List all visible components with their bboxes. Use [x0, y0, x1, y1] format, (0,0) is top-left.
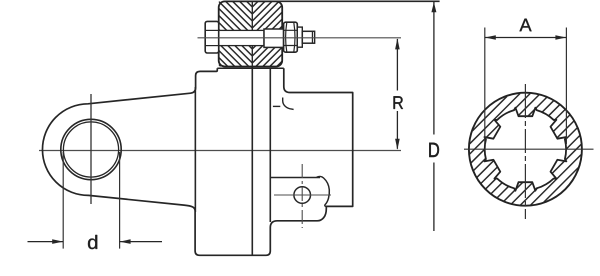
dimension d left extension line: [62, 152, 64, 249]
dimension R top arrowhead: [395, 38, 400, 49]
pin boss step edge: [271, 177, 320, 179]
flange left face edge: [194, 87, 196, 212]
washer collar: [297, 27, 302, 47]
pin hole: [294, 187, 311, 204]
clutch body outline (side view: yoke arm, flange, hub): [42, 68, 352, 255]
clutch bolt shaft: [219, 30, 264, 45]
dimension A left arrowhead: [485, 35, 496, 40]
dimension R line upper segment: [396, 39, 398, 91]
shoulder step tick: [273, 105, 280, 107]
main horizontal centerline (shaft axis): [39, 150, 401, 152]
dimension D top arrowhead: [431, 2, 436, 12]
end view outer circle (diameter D): [469, 93, 582, 206]
dimension R bottom arrowhead: [395, 139, 400, 150]
hex nut: [284, 22, 298, 52]
hub shoulder fillet: [283, 98, 294, 110]
friction block center spine: [251, 1, 253, 66]
bolt thread stub: [302, 31, 314, 43]
yoke eye outer circle: [61, 119, 121, 179]
label R: [394, 96, 403, 109]
dimension R line lower segment: [396, 111, 398, 149]
end view annulus hatch: [470, 93, 582, 205]
pin hole horizontal centerline: [274, 194, 331, 196]
dimension d right extension line: [119, 152, 121, 249]
dimension D top extension line: [277, 0, 440, 2]
hub chamfer edge: [269, 68, 271, 222]
yoke eye vertical centerline: [90, 94, 92, 204]
dimension d right arrow: [120, 241, 162, 243]
splined bore profile (6 splines, diameter A): [484, 108, 566, 191]
pin boss bulge: [317, 176, 330, 206]
end view horizontal centerline: [464, 148, 594, 150]
friction block herringbone hatch right half: [252, 0, 282, 112]
label D: [429, 143, 439, 157]
dimension D line lower segment: [433, 163, 435, 232]
dimension D line upper segment: [433, 2, 435, 135]
label d: [88, 235, 97, 249]
dimension A line: [485, 37, 567, 39]
end view vertical centerline: [524, 84, 526, 219]
friction block herringbone hatch left half: [219, 0, 253, 112]
friction block outline: [219, 1, 283, 66]
flange right face edge: [251, 67, 253, 256]
dimension A left extension line: [484, 28, 486, 146]
dimension A right extension line: [565, 28, 567, 145]
dimension A right arrowhead: [555, 35, 566, 40]
clutch bolt threaded shank: [264, 29, 284, 47]
yoke eye bore circle (diameter d): [63, 122, 118, 177]
dimension d left arrow: [28, 241, 64, 243]
pin hole vertical centerline: [301, 164, 303, 228]
clutch bolt hex head: [205, 21, 219, 53]
bolt axis centerline (dimension R top extension): [198, 37, 402, 39]
housing top edge under friction block: [217, 67, 283, 69]
label A: [519, 19, 531, 32]
friction block white body: [219, 1, 283, 66]
